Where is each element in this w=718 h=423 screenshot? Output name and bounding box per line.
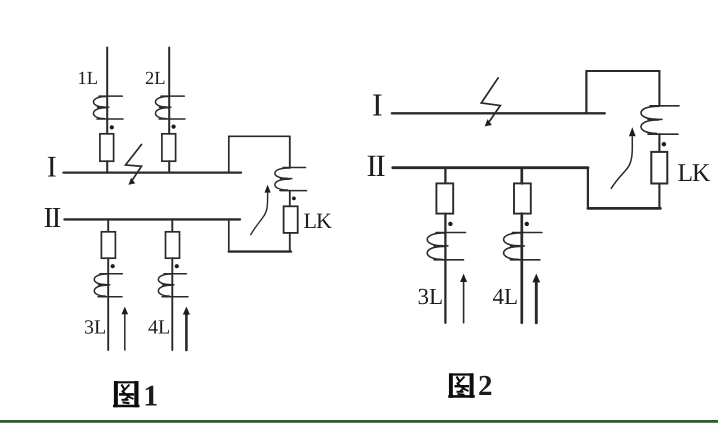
inductor coil 4L (fig2) <box>504 233 542 260</box>
polarity dot of coil LK (fig1) <box>292 197 296 201</box>
inductor coil 1L <box>93 96 123 119</box>
wire right vertical upper (fig2 loop) <box>658 71 660 106</box>
induced current curved arrow (fig2) <box>611 137 632 188</box>
inductor coil 4L <box>158 274 188 297</box>
bus I (fig1) <box>64 171 242 173</box>
wire left vertical lower (fig2 loop) <box>587 168 589 209</box>
current arrow 4L (fig2, bold) <box>535 282 538 323</box>
svg-text:LK: LK <box>678 158 711 187</box>
current arrow 3L (fig2) <box>463 282 465 323</box>
arrester R1 (1L branch rectangle) <box>100 134 114 161</box>
wire 3L through coil <box>107 258 109 350</box>
polarity dot of coil 3L <box>111 264 115 268</box>
polarity dot of coil LK (fig2) <box>662 142 666 146</box>
svg-text:II: II <box>367 148 386 183</box>
bus I (fig2) <box>392 112 605 114</box>
arrester R4 (4L branch rectangle) <box>166 232 180 258</box>
wire 2L to bus I <box>168 161 170 172</box>
svg-text:3L: 3L <box>418 284 444 309</box>
inductor coil LK (fig1) <box>275 168 307 191</box>
wire 1L incoming feeder <box>106 48 108 134</box>
wire top rail of LK loop (fig1) <box>229 135 290 137</box>
wire 3L from bus II <box>107 220 109 232</box>
svg-text:I: I <box>47 150 57 183</box>
wire left vertical upper (fig2 loop) <box>585 71 587 113</box>
wire 3L from bus II (fig2) <box>444 169 446 183</box>
wire right vertical upper (fig1 loop) <box>289 136 291 168</box>
wire top rail of LK loop (fig2) <box>586 70 659 72</box>
wire 2L incoming feeder <box>168 48 170 134</box>
svg-text:II: II <box>44 202 61 234</box>
wire 4L through coil <box>171 258 173 350</box>
arrester LK rectangle (fig1) <box>284 206 298 233</box>
green footer rule <box>0 420 718 423</box>
wire 4L from bus II <box>171 220 173 232</box>
lightning fault arrow on bus I (fig1) <box>126 145 142 185</box>
wire 1L to bus I <box>106 161 108 172</box>
polarity dot of coil 1L <box>110 125 114 129</box>
wire bottom rail of LK loop (fig2) <box>588 207 661 210</box>
wire LK rect to bottom rail <box>289 233 291 252</box>
bus II (fig2) <box>393 166 588 169</box>
arrester R3 (3L branch rectangle) <box>101 232 115 258</box>
polarity dot of coil 4L (fig2) <box>525 222 529 226</box>
induced current curved arrow (fig1) <box>251 192 268 235</box>
polarity dot of coil 4L <box>175 264 179 268</box>
lightning fault arrow on bus I (fig2) <box>481 78 500 126</box>
caption 图1 (drawn 图 glyph) <box>113 381 140 407</box>
caption 图2 (drawn 图 glyph) <box>448 373 475 398</box>
inductor coil 3L <box>94 274 122 297</box>
wire between LK coil and rect (fig2) <box>658 134 660 152</box>
wire left vertical lower (fig1 loop) <box>228 219 230 251</box>
wire between LK coil and rect <box>289 191 291 207</box>
svg-text:I: I <box>372 87 383 123</box>
polarity dot of coil 2L <box>172 125 176 129</box>
arrester LK rectangle (fig2) <box>651 152 667 184</box>
svg-text:3L: 3L <box>84 317 106 339</box>
wire 3L through coil (fig2) <box>444 214 446 323</box>
inductor coil 3L (fig2) <box>427 233 465 260</box>
wire LK rect to bottom rail (fig2) <box>658 184 660 209</box>
svg-text:4L: 4L <box>148 317 170 339</box>
wire 4L from bus II (fig2) <box>520 169 523 183</box>
polarity dot of coil 3L (fig2) <box>448 222 452 226</box>
wire bottom rail of LK loop (fig1) <box>229 250 291 252</box>
arrester R2 (2L branch rectangle) <box>162 134 176 161</box>
svg-text:1: 1 <box>143 379 158 412</box>
svg-text:2: 2 <box>478 370 493 402</box>
wire 4L through coil (fig2) <box>520 214 523 323</box>
arrester R5 (fig2 3L rectangle) <box>436 183 453 213</box>
current arrow 3L <box>124 313 126 351</box>
bus II (fig1) <box>65 218 241 220</box>
svg-text:1L: 1L <box>78 69 99 89</box>
svg-text:4L: 4L <box>493 284 519 309</box>
svg-text:2L: 2L <box>145 69 166 89</box>
current arrow 4L (bold) <box>185 313 188 350</box>
svg-text:LK: LK <box>304 208 332 233</box>
inductor coil 2L <box>155 96 185 119</box>
wire left vertical upper (fig1 loop) <box>228 136 230 172</box>
arrester R6 (fig2 4L rectangle) <box>514 183 531 213</box>
inductor coil LK (fig2) <box>641 106 679 134</box>
